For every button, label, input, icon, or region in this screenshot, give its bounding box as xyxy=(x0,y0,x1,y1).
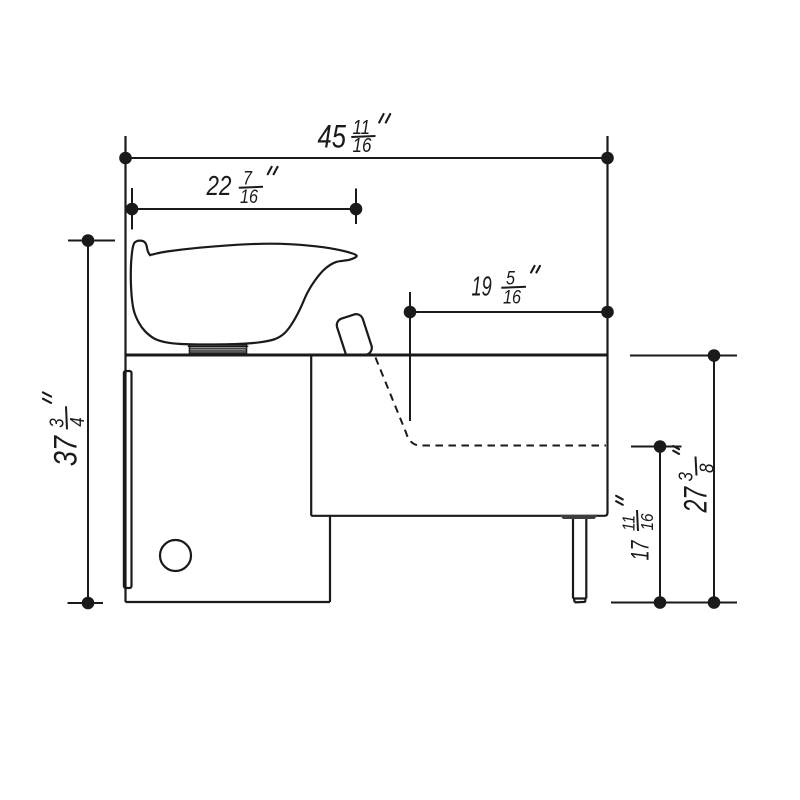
svg-text:11: 11 xyxy=(618,515,638,531)
svg-text:17: 17 xyxy=(626,540,655,561)
svg-text:16: 16 xyxy=(503,286,521,308)
svg-text:4: 4 xyxy=(66,417,89,426)
svg-text:27: 27 xyxy=(678,486,714,514)
svg-text:8: 8 xyxy=(695,463,718,473)
svg-text:3: 3 xyxy=(45,418,68,428)
svg-text:16: 16 xyxy=(240,186,258,208)
svg-text:22: 22 xyxy=(206,171,232,202)
svg-text:16: 16 xyxy=(637,513,657,531)
svg-text:19: 19 xyxy=(472,272,492,303)
svg-text:3: 3 xyxy=(674,471,697,481)
svg-text:16: 16 xyxy=(353,134,373,157)
svg-text:37: 37 xyxy=(48,435,84,467)
svg-text:45: 45 xyxy=(318,120,347,155)
